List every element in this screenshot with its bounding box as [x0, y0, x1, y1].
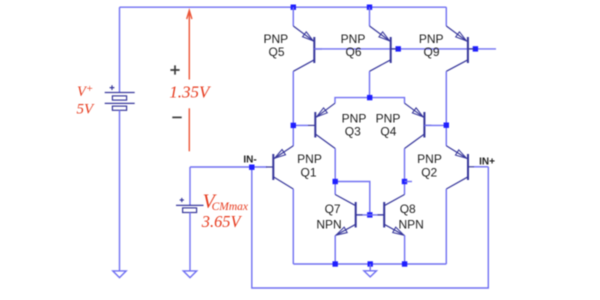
- wire base rail (Q5-Q6-Q9): [314, 48, 496, 50]
- svg-text:Q6: Q6: [345, 45, 361, 59]
- annotation minus sign (1.35V): [172, 116, 181, 118]
- svg-text:Q4: Q4: [380, 124, 396, 138]
- ground (under VCM battery): [183, 271, 196, 278]
- transistor Q7 (NPN): [335, 195, 362, 265]
- svg-text:NPN: NPN: [399, 218, 424, 232]
- node Q7/Q8 common base: [367, 212, 372, 217]
- node header center: [367, 95, 372, 100]
- red arrow 1.35V: [187, 10, 192, 151]
- svg-text:Q2: Q2: [421, 166, 437, 180]
- node IN-: [249, 165, 254, 170]
- wire Q2 base to IN+: [474, 166, 488, 168]
- node top rail Q6: [367, 5, 372, 10]
- wire bottom rail: [293, 263, 446, 265]
- svg-text:V+: V+: [77, 83, 93, 100]
- svg-text:Q3: Q3: [345, 124, 361, 138]
- svg-text:Q9: Q9: [423, 45, 439, 59]
- wire IN- net: [190, 166, 267, 168]
- svg-text:1.35V: 1.35V: [169, 82, 212, 101]
- node Q3 base: [291, 123, 296, 128]
- wire VCM battery top lead: [189, 167, 191, 205]
- svg-text:IN-: IN-: [243, 154, 256, 165]
- svg-text:PNP: PNP: [263, 32, 288, 46]
- svg-text:3.65V: 3.65V: [201, 212, 243, 231]
- transistor Q5 (PNP): [293, 7, 322, 146]
- svg-text:NPN: NPN: [316, 218, 341, 232]
- wire VCM battery bottom lead: [189, 213, 191, 271]
- transistor Q9 (PNP): [446, 7, 474, 146]
- transistor Q4 (PNP): [405, 103, 432, 194]
- transistor Q1 (PNP): [266, 146, 293, 264]
- wire Q4 base to Q9 collector line: [424, 124, 446, 126]
- transistor Q8 (NPN): [378, 195, 405, 265]
- node Q7 collector: [333, 179, 338, 184]
- node Q4 base: [444, 123, 449, 128]
- transistor Q3 (PNP): [308, 103, 335, 194]
- transistor Q2 (PNP): [446, 146, 474, 264]
- node top rail Q5: [291, 5, 296, 10]
- svg-text:Q5: Q5: [268, 45, 284, 59]
- wire Q7/Q8 base link: [356, 214, 385, 216]
- svg-text:5V: 5V: [77, 102, 96, 118]
- node base Q6: [396, 46, 401, 51]
- transistor Q6 (PNP): [370, 7, 398, 97]
- svg-text:PNP: PNP: [342, 111, 367, 125]
- svg-text:Q7: Q7: [325, 202, 341, 216]
- node ground tap: [368, 261, 373, 266]
- node Q8 emitter: [402, 261, 407, 266]
- wire battery V+ top lead: [119, 7, 121, 92]
- node Q7 emitter: [333, 261, 338, 266]
- svg-text:Q8: Q8: [400, 202, 416, 216]
- svg-text:CMmax: CMmax: [212, 201, 249, 213]
- wire emitter header Q3/Q4: [335, 98, 405, 104]
- svg-text:PNP: PNP: [297, 152, 322, 166]
- svg-text:PNP: PNP: [417, 152, 442, 166]
- battery VCMmax: [176, 198, 204, 213]
- wire battery V+ bottom lead: [119, 110, 121, 270]
- wire Q3 base to Q5 collector line: [293, 124, 308, 126]
- wire top rail V+: [120, 6, 447, 8]
- battery V+: [105, 85, 135, 110]
- svg-text:PNP: PNP: [419, 32, 444, 46]
- ground (under V+ battery): [113, 271, 126, 278]
- svg-text:PNP: PNP: [376, 111, 401, 125]
- svg-text:Q1: Q1: [300, 166, 316, 180]
- ground (bottom rail): [369, 264, 371, 271]
- node Q8 collector: [402, 179, 407, 184]
- node base Q9: [473, 46, 478, 51]
- wire Q7 collector tie to bases: [335, 182, 370, 215]
- wire stub at Q8 collector: [405, 181, 413, 183]
- svg-text:IN+: IN+: [479, 156, 495, 167]
- wire common-mode loop (IN- down, bottom, up to IN+): [252, 167, 488, 288]
- annotation plus sign (1.35V): [170, 65, 179, 74]
- svg-text:PNP: PNP: [341, 32, 366, 46]
